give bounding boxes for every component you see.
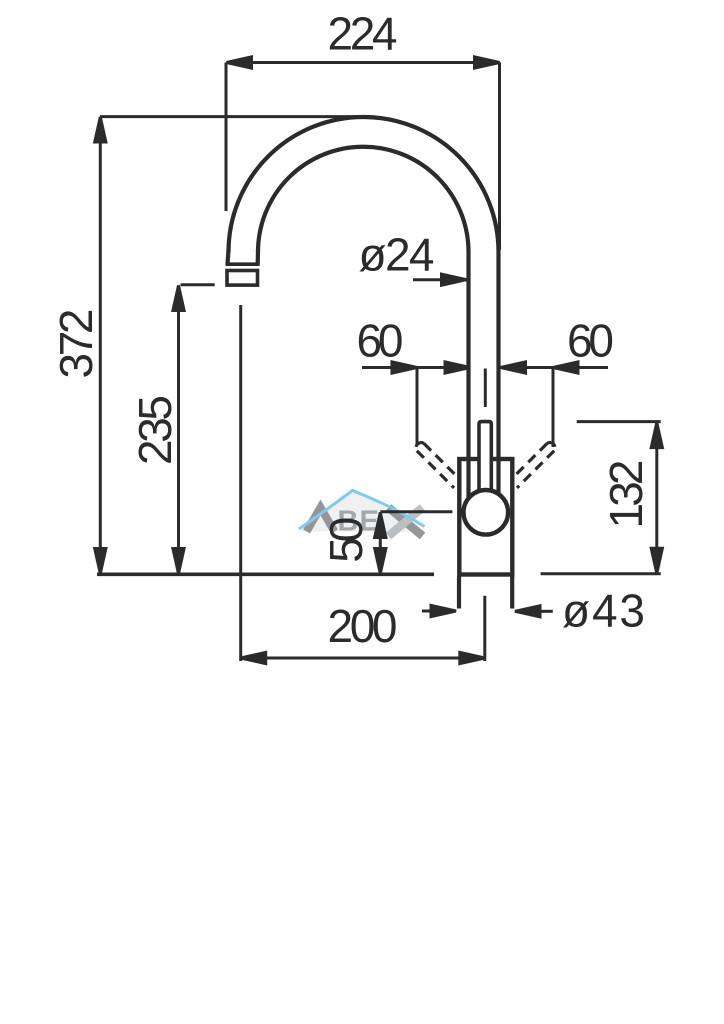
- reference line circle centre: [380, 510, 452, 513]
- spout tip inner wall: [256, 250, 260, 264]
- spout tip cap line: [226, 262, 260, 266]
- extension line 60 right: [552, 368, 555, 447]
- mixer ball circle: [464, 490, 509, 535]
- extension line 224 right: [498, 63, 501, 251]
- body block: [459, 459, 512, 575]
- dimension 50 line: [379, 513, 382, 574]
- watermark letter X: [389, 508, 423, 537]
- svg-text:ø24: ø24: [359, 229, 435, 281]
- watermark letter A: [307, 508, 335, 532]
- body centreline: [483, 596, 486, 661]
- dimension 60 right line: [499, 366, 608, 369]
- tube center mark for 60/60: [484, 369, 487, 408]
- svg-text:200: 200: [328, 600, 398, 652]
- svg-text:372: 372: [50, 309, 102, 379]
- lever rod: [479, 422, 491, 490]
- leader arrow d24: [413, 278, 465, 281]
- dashed lever left (rotated position): [416, 443, 461, 488]
- svg-text:ø43: ø43: [562, 585, 645, 637]
- tube wall stub right inside body: [496, 461, 500, 497]
- watermark logo triangle: [300, 488, 426, 532]
- svg-text:60: 60: [567, 315, 614, 367]
- tube left wall: [466, 252, 470, 459]
- spout tip outer wall: [228, 250, 229, 264]
- dimension 132 line: [655, 423, 658, 574]
- reference line arc top: [100, 115, 356, 118]
- dimension 224 line: [227, 61, 500, 64]
- dimension 235 line: [177, 286, 180, 574]
- extension line 224 left: [225, 63, 228, 212]
- dimension 60 left line: [362, 366, 470, 369]
- shank right edge below deck: [510, 577, 514, 609]
- reference line spout bottom: [181, 283, 215, 286]
- leader arrow d43 left: [422, 610, 432, 613]
- svg-text:50: 50: [320, 517, 372, 563]
- reference line 132 bottom: [541, 572, 661, 575]
- spout inner arc: [258, 147, 469, 252]
- svg-text:224: 224: [328, 8, 398, 60]
- tube right wall: [496, 252, 500, 459]
- leader arrow d43 right: [540, 610, 553, 613]
- spout centreline: [239, 305, 242, 661]
- watermark blue swoosh: [299, 491, 425, 530]
- spout outer arc: [229, 117, 499, 252]
- deck line: [97, 572, 434, 576]
- tube wall stub left inside body: [466, 461, 470, 497]
- extension line 60 left: [416, 368, 419, 444]
- svg-text:132: 132: [600, 460, 652, 529]
- dimension 200 line: [241, 657, 485, 660]
- shank left edge below deck: [457, 577, 461, 609]
- reference line 132 top: [577, 420, 661, 423]
- dashed lever right (rotated position): [510, 443, 555, 488]
- svg-text:60: 60: [357, 315, 404, 367]
- dimension 372 line: [99, 117, 102, 574]
- svg-text:235: 235: [129, 395, 181, 465]
- aerator box: [227, 271, 258, 286]
